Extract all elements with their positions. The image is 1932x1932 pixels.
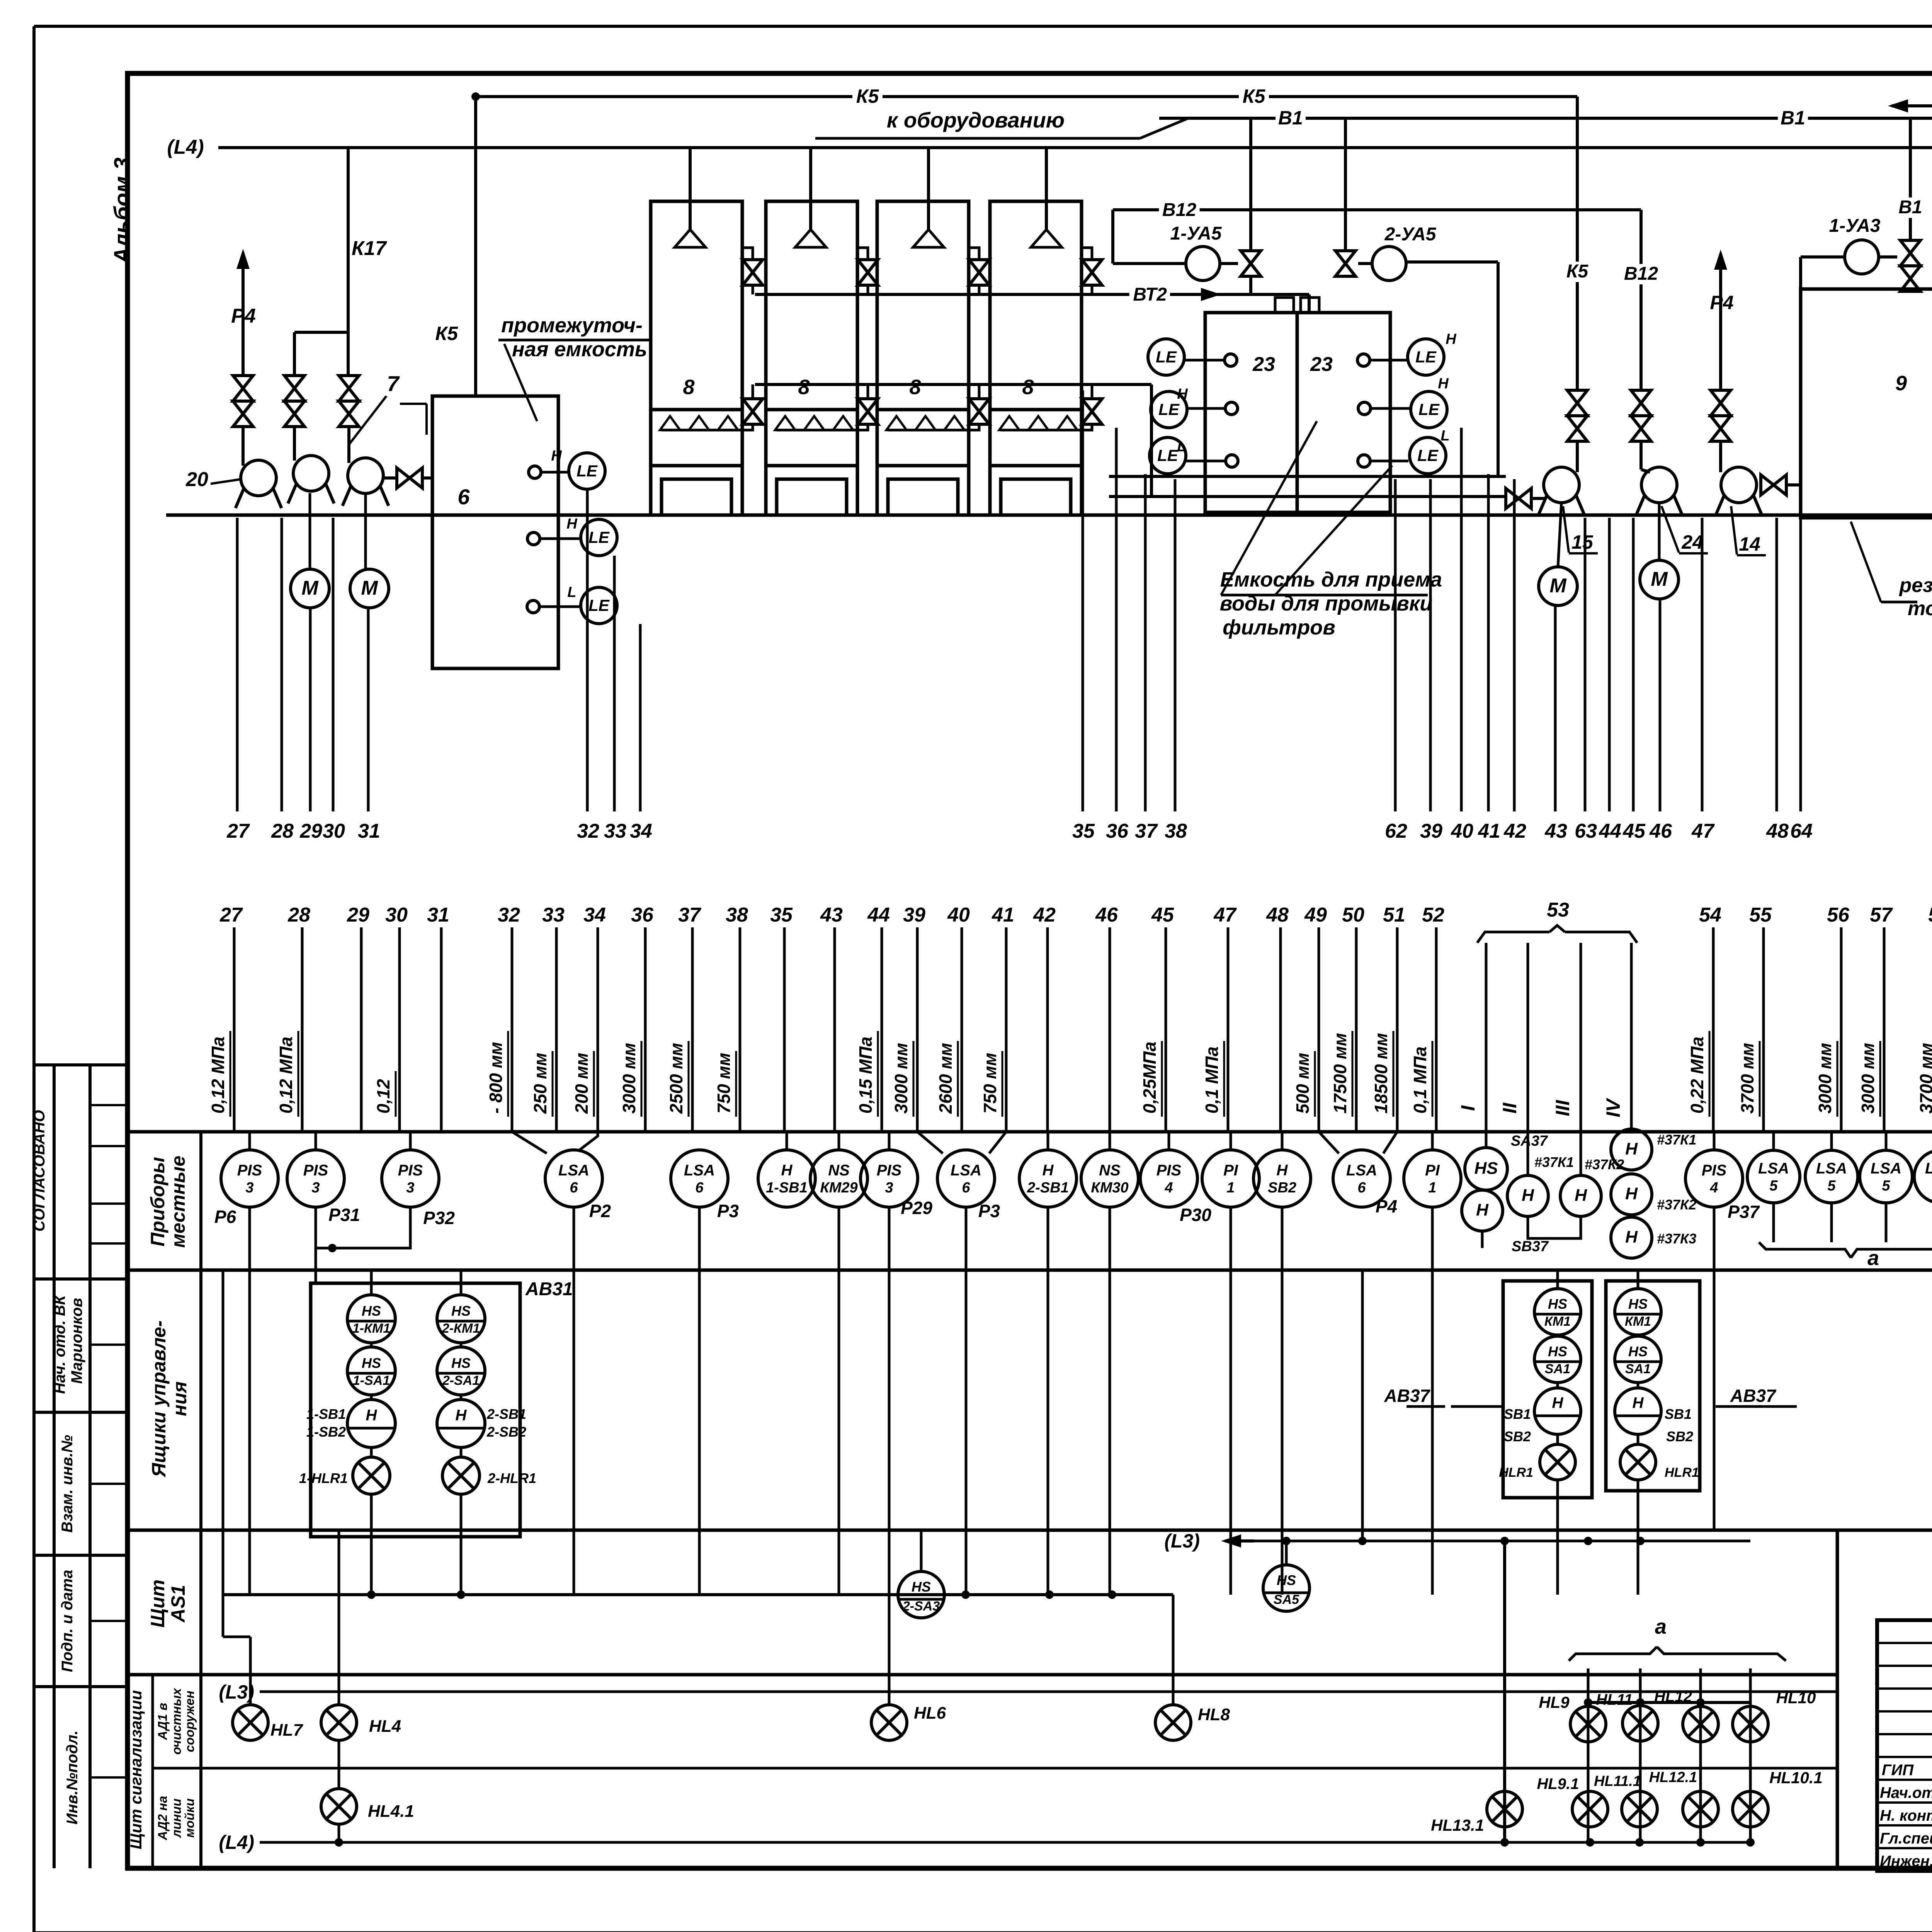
P4 riser arrow mid <box>1710 250 1733 390</box>
svg-text:2-SB1: 2-SB1 <box>1027 1180 1069 1196</box>
svg-text:LSA: LSA <box>1346 1162 1377 1179</box>
svg-text:В12: В12 <box>1162 200 1196 220</box>
svg-text:LE: LE <box>577 462 598 480</box>
svg-text:45: 45 <box>1151 904 1174 926</box>
label 14 <box>1731 506 1766 555</box>
AS1 L-link PIS <box>223 1270 250 1637</box>
pump 24 <box>1636 467 1682 515</box>
lamp HL12 <box>1654 1688 1718 1742</box>
svg-text:56: 56 <box>1827 904 1850 926</box>
valve 1-УА5 <box>1220 118 1261 276</box>
svg-text:7: 7 <box>387 371 400 396</box>
svg-text:39: 39 <box>903 904 925 926</box>
svg-text:Н: Н <box>1446 331 1457 347</box>
svg-text:Р29: Р29 <box>901 1198 932 1218</box>
svg-text:0,12: 0,12 <box>373 1079 393 1114</box>
svg-text:HL12: HL12 <box>1654 1688 1692 1705</box>
svg-text:L: L <box>567 584 576 600</box>
motor M pump15 <box>1539 502 1577 605</box>
svg-text:46: 46 <box>1095 904 1118 926</box>
svg-text:50: 50 <box>1342 904 1364 926</box>
lamp HL11 <box>1596 1691 1658 1741</box>
svg-text:3700 мм: 3700 мм <box>1916 1043 1932 1114</box>
svg-text:Гл.спец.: Гл.спец. <box>1880 1830 1932 1847</box>
svg-text:М: М <box>1549 575 1567 597</box>
callout резервуар чистой воды <box>1851 522 1932 620</box>
svg-text:SВ37: SВ37 <box>1512 1238 1549 1255</box>
svg-text:АД2 на: АД2 на <box>155 1796 170 1841</box>
tank23 LE right column <box>1408 331 1457 474</box>
box AB31 <box>311 1279 573 1537</box>
instrument sub labels <box>214 1196 1760 1228</box>
svg-text:6: 6 <box>570 1180 578 1196</box>
svg-text:31: 31 <box>427 904 449 926</box>
svg-text:8: 8 <box>909 376 921 399</box>
svg-text:SA5: SA5 <box>1274 1592 1299 1607</box>
HL8 riser <box>1172 1595 1175 1705</box>
svg-text:28: 28 <box>271 820 294 842</box>
svg-text:АВ37: АВ37 <box>1730 1386 1777 1406</box>
callout емкость для приема <box>1220 421 1442 639</box>
svg-text:40: 40 <box>1451 820 1473 842</box>
L3 arrow line AS1 <box>1164 1530 1750 1565</box>
label 7 callout <box>350 371 427 444</box>
valve stack pump15 <box>1567 390 1587 441</box>
group 53 bracket <box>1477 899 1637 943</box>
svg-text:Н: Н <box>1633 1395 1644 1412</box>
svg-text:3000 мм: 3000 мм <box>1815 1043 1835 1114</box>
svg-text:48: 48 <box>1266 904 1289 926</box>
valve stack 28 <box>284 376 304 427</box>
valve B1 tank9 <box>1879 240 1920 291</box>
svg-text:сооружен: сооружен <box>182 1690 197 1752</box>
filter tank 8 #1 <box>651 148 753 515</box>
svg-text:Щит: Щит <box>147 1580 168 1628</box>
signal drop lines to tag row 1 <box>237 390 1932 811</box>
svg-text:Н: Н <box>1625 1184 1638 1203</box>
svg-text:Инжен.: Инжен. <box>1880 1853 1932 1870</box>
solenoid 1-УА5 circle <box>1170 223 1222 281</box>
svg-text:2600 мм: 2600 мм <box>935 1043 956 1114</box>
svg-text:34: 34 <box>583 904 606 926</box>
svg-text:L: L <box>1440 428 1449 444</box>
lamp HL7 <box>233 1637 304 1740</box>
tank23 left taps <box>1177 354 1238 467</box>
svg-text:2-SВ1: 2-SВ1 <box>486 1406 526 1422</box>
svg-text:LE: LE <box>588 596 610 614</box>
svg-text:Н: Н <box>1522 1186 1534 1205</box>
svg-text:LE: LE <box>588 528 610 546</box>
lamp HL4.1 <box>321 1740 414 1847</box>
svg-text:28: 28 <box>287 904 310 926</box>
svg-text:III: III <box>1552 1100 1573 1116</box>
HS SA37 stack <box>1462 1132 1549 1255</box>
tank6 tap L <box>527 584 581 613</box>
svg-text:HS: HS <box>1277 1572 1296 1588</box>
tank6 tap H1 <box>529 448 569 478</box>
L4 row label <box>219 1832 1750 1853</box>
svg-text:К5: К5 <box>1243 85 1266 107</box>
lamp HL8 <box>1155 1705 1230 1740</box>
svg-text:NS: NS <box>1099 1162 1121 1179</box>
svg-text:42: 42 <box>1033 904 1056 926</box>
svg-text:2-SA1: 2-SA1 <box>442 1373 480 1388</box>
svg-text:LSA: LSA <box>684 1162 715 1179</box>
svg-text:II: II <box>1499 1102 1520 1114</box>
svg-text:51: 51 <box>1383 904 1405 926</box>
svg-text:30: 30 <box>323 820 345 842</box>
svg-text:(L4): (L4) <box>219 1832 254 1853</box>
svg-text:Н: Н <box>1552 1395 1564 1412</box>
svg-text:2500 мм: 2500 мм <box>666 1043 686 1114</box>
svg-text:М: М <box>301 577 319 599</box>
svg-text:Емкость для приема: Емкость для приема <box>1220 568 1442 591</box>
label Нач. отд ВК <box>51 1294 68 1394</box>
roman numeral branch lines I-IV <box>1457 943 1631 1132</box>
band label column lines <box>153 1132 1932 1868</box>
outlet valve pump14 <box>1761 475 1801 495</box>
filter tank 8 #3 <box>877 148 980 515</box>
motor M pump3 <box>350 493 389 608</box>
svg-text:0,22 МПа: 0,22 МПа <box>1687 1037 1707 1114</box>
svg-text:23: 23 <box>1252 353 1275 376</box>
svg-text:4: 4 <box>1709 1180 1718 1196</box>
svg-text:- 800 мм: - 800 мм <box>486 1042 506 1114</box>
svg-text:35: 35 <box>1072 820 1095 842</box>
filter tank 8 #2 <box>766 148 868 515</box>
inter-tank valves #2 <box>857 248 878 430</box>
svg-text:3: 3 <box>311 1180 320 1196</box>
svg-text:3: 3 <box>885 1180 893 1196</box>
tag numbers row 1 <box>226 820 1932 842</box>
svg-text:46: 46 <box>1649 820 1672 842</box>
svg-text:В12: В12 <box>1624 264 1658 284</box>
svg-text:52: 52 <box>1422 904 1444 926</box>
svg-text:47: 47 <box>1213 904 1237 926</box>
AB31 column 1 <box>299 1270 395 1595</box>
svg-text:2-SA3: 2-SA3 <box>902 1599 940 1614</box>
HS 2-SA3 upper stub <box>920 1530 923 1571</box>
svg-text:250 мм: 250 мм <box>530 1053 550 1114</box>
svg-text:HL9: HL9 <box>1539 1693 1570 1711</box>
solenoid 1-УА3 <box>1801 216 1881 289</box>
svg-text:1-УА3: 1-УА3 <box>1829 216 1881 236</box>
motor M pump2 <box>291 493 329 608</box>
label Марионков <box>68 1298 85 1384</box>
signal verticals through control band <box>250 1207 1714 1705</box>
svg-text:3000 мм: 3000 мм <box>619 1043 639 1114</box>
B12 label pump24 <box>1621 264 1661 284</box>
svg-text:HLR1: HLR1 <box>1665 1465 1699 1480</box>
svg-text:HL4.1: HL4.1 <box>368 1802 414 1821</box>
svg-text:очистных: очистных <box>169 1687 184 1755</box>
svg-text:0,1 МПа: 0,1 МПа <box>1202 1046 1222 1114</box>
svg-text:Р3: Р3 <box>717 1201 739 1221</box>
svg-text:3: 3 <box>245 1180 253 1196</box>
riser HL13.1 <box>1500 1537 1509 1847</box>
inter-tank valves #1 <box>742 248 763 430</box>
tank6 LE H1 <box>569 453 605 489</box>
svg-text:HL6: HL6 <box>914 1704 946 1723</box>
svg-text:1-SВ2: 1-SВ2 <box>306 1424 346 1440</box>
svg-text:1-УА5: 1-УА5 <box>1170 223 1222 244</box>
tank 6 <box>432 396 558 668</box>
svg-text:HL11.1: HL11.1 <box>1594 1773 1641 1789</box>
svg-text:27: 27 <box>219 904 243 926</box>
lamp riser HL9 <box>1587 1668 1590 1842</box>
pump 20-3 <box>342 427 388 506</box>
svg-text:SВ1: SВ1 <box>1504 1406 1531 1422</box>
svg-text:ВТ2: ВТ2 <box>1133 284 1167 305</box>
svg-text:3000 мм: 3000 мм <box>891 1043 911 1114</box>
svg-text:КМ29: КМ29 <box>820 1180 857 1196</box>
svg-text:(L3): (L3) <box>219 1681 254 1703</box>
motor M pump24 <box>1640 502 1679 599</box>
svg-text:КМ1: КМ1 <box>1544 1314 1571 1329</box>
svg-text:Р37: Р37 <box>1728 1202 1760 1222</box>
svg-text:15: 15 <box>1571 531 1594 553</box>
svg-text:LE: LE <box>1415 348 1437 366</box>
lower header filters <box>755 384 1151 497</box>
lamp riser HL10 <box>1749 1668 1752 1842</box>
signature table grid <box>1877 1620 1932 1871</box>
pump 15 <box>1538 441 1584 515</box>
svg-text:КМ30: КМ30 <box>1091 1180 1128 1196</box>
valve 2-УА5 <box>1335 118 1372 276</box>
svg-text:HS: HS <box>362 1355 381 1371</box>
svg-text:HS: HS <box>362 1303 381 1319</box>
svg-text:Р30: Р30 <box>1180 1205 1211 1225</box>
svg-text:HLR1: HLR1 <box>1499 1465 1533 1480</box>
svg-text:LSA: LSA <box>951 1162 981 1179</box>
tank 23 pair <box>1205 313 1390 512</box>
svg-text:37: 37 <box>1135 820 1158 842</box>
lamp HL9 <box>1539 1693 1606 1742</box>
drops to instruments <box>250 1132 1932 1152</box>
svg-text:1: 1 <box>1428 1180 1436 1196</box>
svg-text:42: 42 <box>1503 820 1526 842</box>
svg-text:PIS: PIS <box>398 1162 423 1179</box>
svg-text:HL7: HL7 <box>270 1721 304 1740</box>
svg-text:АД1 в: АД1 в <box>155 1703 170 1740</box>
H bubbles 37K1 37K2 <box>1507 1132 1624 1238</box>
svg-text:27: 27 <box>226 820 250 842</box>
svg-text:SA37: SA37 <box>1511 1133 1548 1149</box>
suction valve <box>1506 488 1531 509</box>
svg-text:36: 36 <box>631 904 654 926</box>
tank6 LE H2 <box>581 519 617 556</box>
svg-text:HL4: HL4 <box>369 1717 401 1736</box>
svg-text:К17: К17 <box>352 237 387 260</box>
svg-text:Взам. инв.№: Взам. инв.№ <box>59 1435 76 1532</box>
lamp HL13.1 <box>1431 1791 1522 1834</box>
svg-text:1-КМ1: 1-КМ1 <box>352 1321 390 1336</box>
svg-text:23: 23 <box>1310 353 1333 376</box>
svg-text:мойки: мойки <box>182 1798 197 1838</box>
B12 branch line <box>1113 200 1641 390</box>
svg-text:(L3): (L3) <box>1164 1530 1200 1552</box>
band label Ящики управления <box>148 1320 190 1478</box>
svg-text:3000 мм: 3000 мм <box>1858 1043 1878 1114</box>
svg-text:Н: Н <box>456 1407 467 1424</box>
svg-text:8: 8 <box>798 376 810 399</box>
svg-text:3700 мм: 3700 мм <box>1737 1043 1757 1114</box>
svg-text:Нач. отд. ВК: Нач. отд. ВК <box>51 1294 68 1394</box>
line BT2 to valve <box>1249 276 1252 294</box>
svg-text:0,15 МПа: 0,15 МПа <box>855 1037 876 1114</box>
svg-text:Ящики управле-: Ящики управле- <box>148 1320 170 1478</box>
svg-text:41: 41 <box>1478 820 1500 842</box>
svg-text:2-УА5: 2-УА5 <box>1384 224 1437 245</box>
label 20 <box>185 468 241 491</box>
brace a lamps <box>1569 1615 1786 1661</box>
pump 20-1 <box>235 427 281 508</box>
B1 riser <box>1896 120 1925 240</box>
svg-text:2-КМ1: 2-КМ1 <box>442 1321 480 1336</box>
svg-text:0,25МПа: 0,25МПа <box>1139 1041 1160 1114</box>
svg-text:Р4: Р4 <box>1376 1196 1397 1216</box>
svg-text:43: 43 <box>820 904 843 926</box>
svg-text:АВ31: АВ31 <box>525 1279 573 1299</box>
svg-text:40: 40 <box>947 904 970 926</box>
AB37 column 4239 <box>1615 1270 1699 1595</box>
valve stack pump24 <box>1631 390 1651 469</box>
svg-text:31: 31 <box>358 820 380 842</box>
svg-text:LE: LE <box>1157 446 1179 464</box>
svg-text:48: 48 <box>1766 820 1789 842</box>
svg-text:29: 29 <box>347 904 369 926</box>
svg-text:Р6: Р6 <box>214 1207 236 1227</box>
svg-text:HS: HS <box>451 1355 471 1371</box>
svg-text:Н: Н <box>1625 1139 1638 1158</box>
pump 14 <box>1716 441 1762 515</box>
svg-text:30: 30 <box>385 904 408 926</box>
svg-text:#37К3: #37К3 <box>1657 1231 1696 1247</box>
svg-text:Инв.№подл.: Инв.№подл. <box>64 1730 81 1825</box>
LSA Y joins <box>512 1132 1397 1153</box>
inter-tank valves #3 <box>969 248 989 430</box>
svg-text:HS: HS <box>1628 1344 1648 1359</box>
svg-text:44: 44 <box>1599 820 1621 842</box>
box AB37 left <box>1503 1281 1592 1498</box>
svg-text:1-SВ1: 1-SВ1 <box>306 1406 346 1422</box>
svg-text:8: 8 <box>683 376 694 399</box>
svg-text:34: 34 <box>630 820 652 842</box>
svg-text:24: 24 <box>1681 531 1703 553</box>
lamp HL9.1 <box>1537 1776 1608 1827</box>
svg-text:49: 49 <box>1304 904 1327 926</box>
svg-text:К5: К5 <box>1566 261 1589 282</box>
svg-text:57: 57 <box>1870 904 1893 926</box>
main floor line <box>166 514 1932 517</box>
2-УА5 outlet <box>1406 262 1498 476</box>
svg-text:32: 32 <box>498 904 520 926</box>
svg-text:45: 45 <box>1622 820 1646 842</box>
lamp riser HL11 <box>1639 1668 1642 1842</box>
label 15 <box>1563 506 1598 553</box>
svg-text:В1: В1 <box>1898 197 1922 218</box>
svg-text:Р4: Р4 <box>231 305 256 327</box>
svg-text:КМ1: КМ1 <box>1625 1314 1651 1329</box>
HS 2-SA3 bubble <box>898 1571 944 1618</box>
left stamp table <box>34 1065 128 1868</box>
svg-text:(L4): (L4) <box>167 136 204 158</box>
svg-text:LSA: LSA <box>1758 1160 1789 1177</box>
label 24 <box>1662 506 1708 553</box>
lamp HL11.1 <box>1594 1773 1657 1827</box>
svg-text:резервуар чис-: резервуар чис- <box>1898 574 1932 597</box>
svg-text:41: 41 <box>992 904 1014 926</box>
svg-text:9: 9 <box>1895 372 1907 395</box>
svg-text:Н: Н <box>1575 1186 1587 1205</box>
svg-text:Подп. и дата: Подп. и дата <box>59 1570 76 1672</box>
supply arrow <box>1888 99 1932 112</box>
svg-text:Марионков: Марионков <box>68 1298 85 1384</box>
label Инв.№ подл. <box>64 1730 81 1825</box>
lamp HL12.1 <box>1649 1769 1718 1827</box>
svg-text:2-HLR1: 2-HLR1 <box>487 1470 536 1486</box>
svg-text:5: 5 <box>1882 1178 1890 1194</box>
svg-text:37: 37 <box>678 904 701 926</box>
HS SA5 bubble <box>1263 1565 1310 1611</box>
svg-text:В1: В1 <box>1278 107 1303 129</box>
svg-text:29: 29 <box>299 820 322 842</box>
svg-text:PIS: PIS <box>1702 1162 1727 1179</box>
svg-text:750 мм: 750 мм <box>714 1053 734 1114</box>
svg-text:Р3: Р3 <box>978 1201 1000 1221</box>
svg-text:Н. контр.: Н. контр. <box>1880 1807 1932 1824</box>
callout к оборудованию <box>815 108 1188 138</box>
svg-text:PI: PI <box>1425 1162 1440 1179</box>
K5 header line <box>471 85 1577 108</box>
svg-text:64: 64 <box>1790 820 1813 842</box>
svg-text:местные: местные <box>167 1156 189 1248</box>
svg-text:Н: Н <box>366 1407 378 1424</box>
callout промежуточная емкость <box>498 314 649 421</box>
svg-text:3: 3 <box>406 1180 414 1196</box>
svg-text:линии: линии <box>169 1799 184 1838</box>
tag numbers row 2 <box>219 904 1932 926</box>
band label Приборы местные <box>147 1156 189 1248</box>
svg-text:Н: Н <box>1043 1162 1054 1179</box>
svg-text:43: 43 <box>1544 820 1567 842</box>
svg-text:LE: LE <box>1418 400 1440 418</box>
svg-text:SA1: SA1 <box>1625 1362 1651 1376</box>
svg-text:SВ1: SВ1 <box>1665 1406 1692 1422</box>
band label Щит AS1 <box>147 1580 189 1628</box>
outlet valve tank6 <box>383 468 432 488</box>
box AB37 right <box>1384 1281 1797 1491</box>
AB37 column 4031 <box>1499 1270 1581 1595</box>
svg-text:HL10.1: HL10.1 <box>1769 1769 1823 1787</box>
album label <box>110 157 135 264</box>
svg-text:2-SВ2: 2-SВ2 <box>486 1424 526 1440</box>
svg-text:LE: LE <box>1156 348 1177 366</box>
signal lines row2 into bands <box>234 927 1932 1132</box>
AB31 column 2 <box>437 1270 536 1595</box>
svg-text:Р4: Р4 <box>1710 292 1733 313</box>
band label АД1 в очистных сооружен <box>155 1687 197 1755</box>
svg-text:18500 мм: 18500 мм <box>1371 1033 1391 1114</box>
svg-text:0,12 МПа: 0,12 МПа <box>276 1037 296 1114</box>
svg-text:AS1: AS1 <box>167 1585 189 1623</box>
svg-text:8: 8 <box>1022 376 1034 399</box>
K5 riser to pump15 <box>1563 97 1592 390</box>
svg-text:Н: Н <box>1438 376 1449 392</box>
svg-text:HS: HS <box>912 1579 931 1595</box>
svg-text:Приборы: Приборы <box>147 1157 168 1247</box>
valve stack 27 <box>233 376 253 427</box>
